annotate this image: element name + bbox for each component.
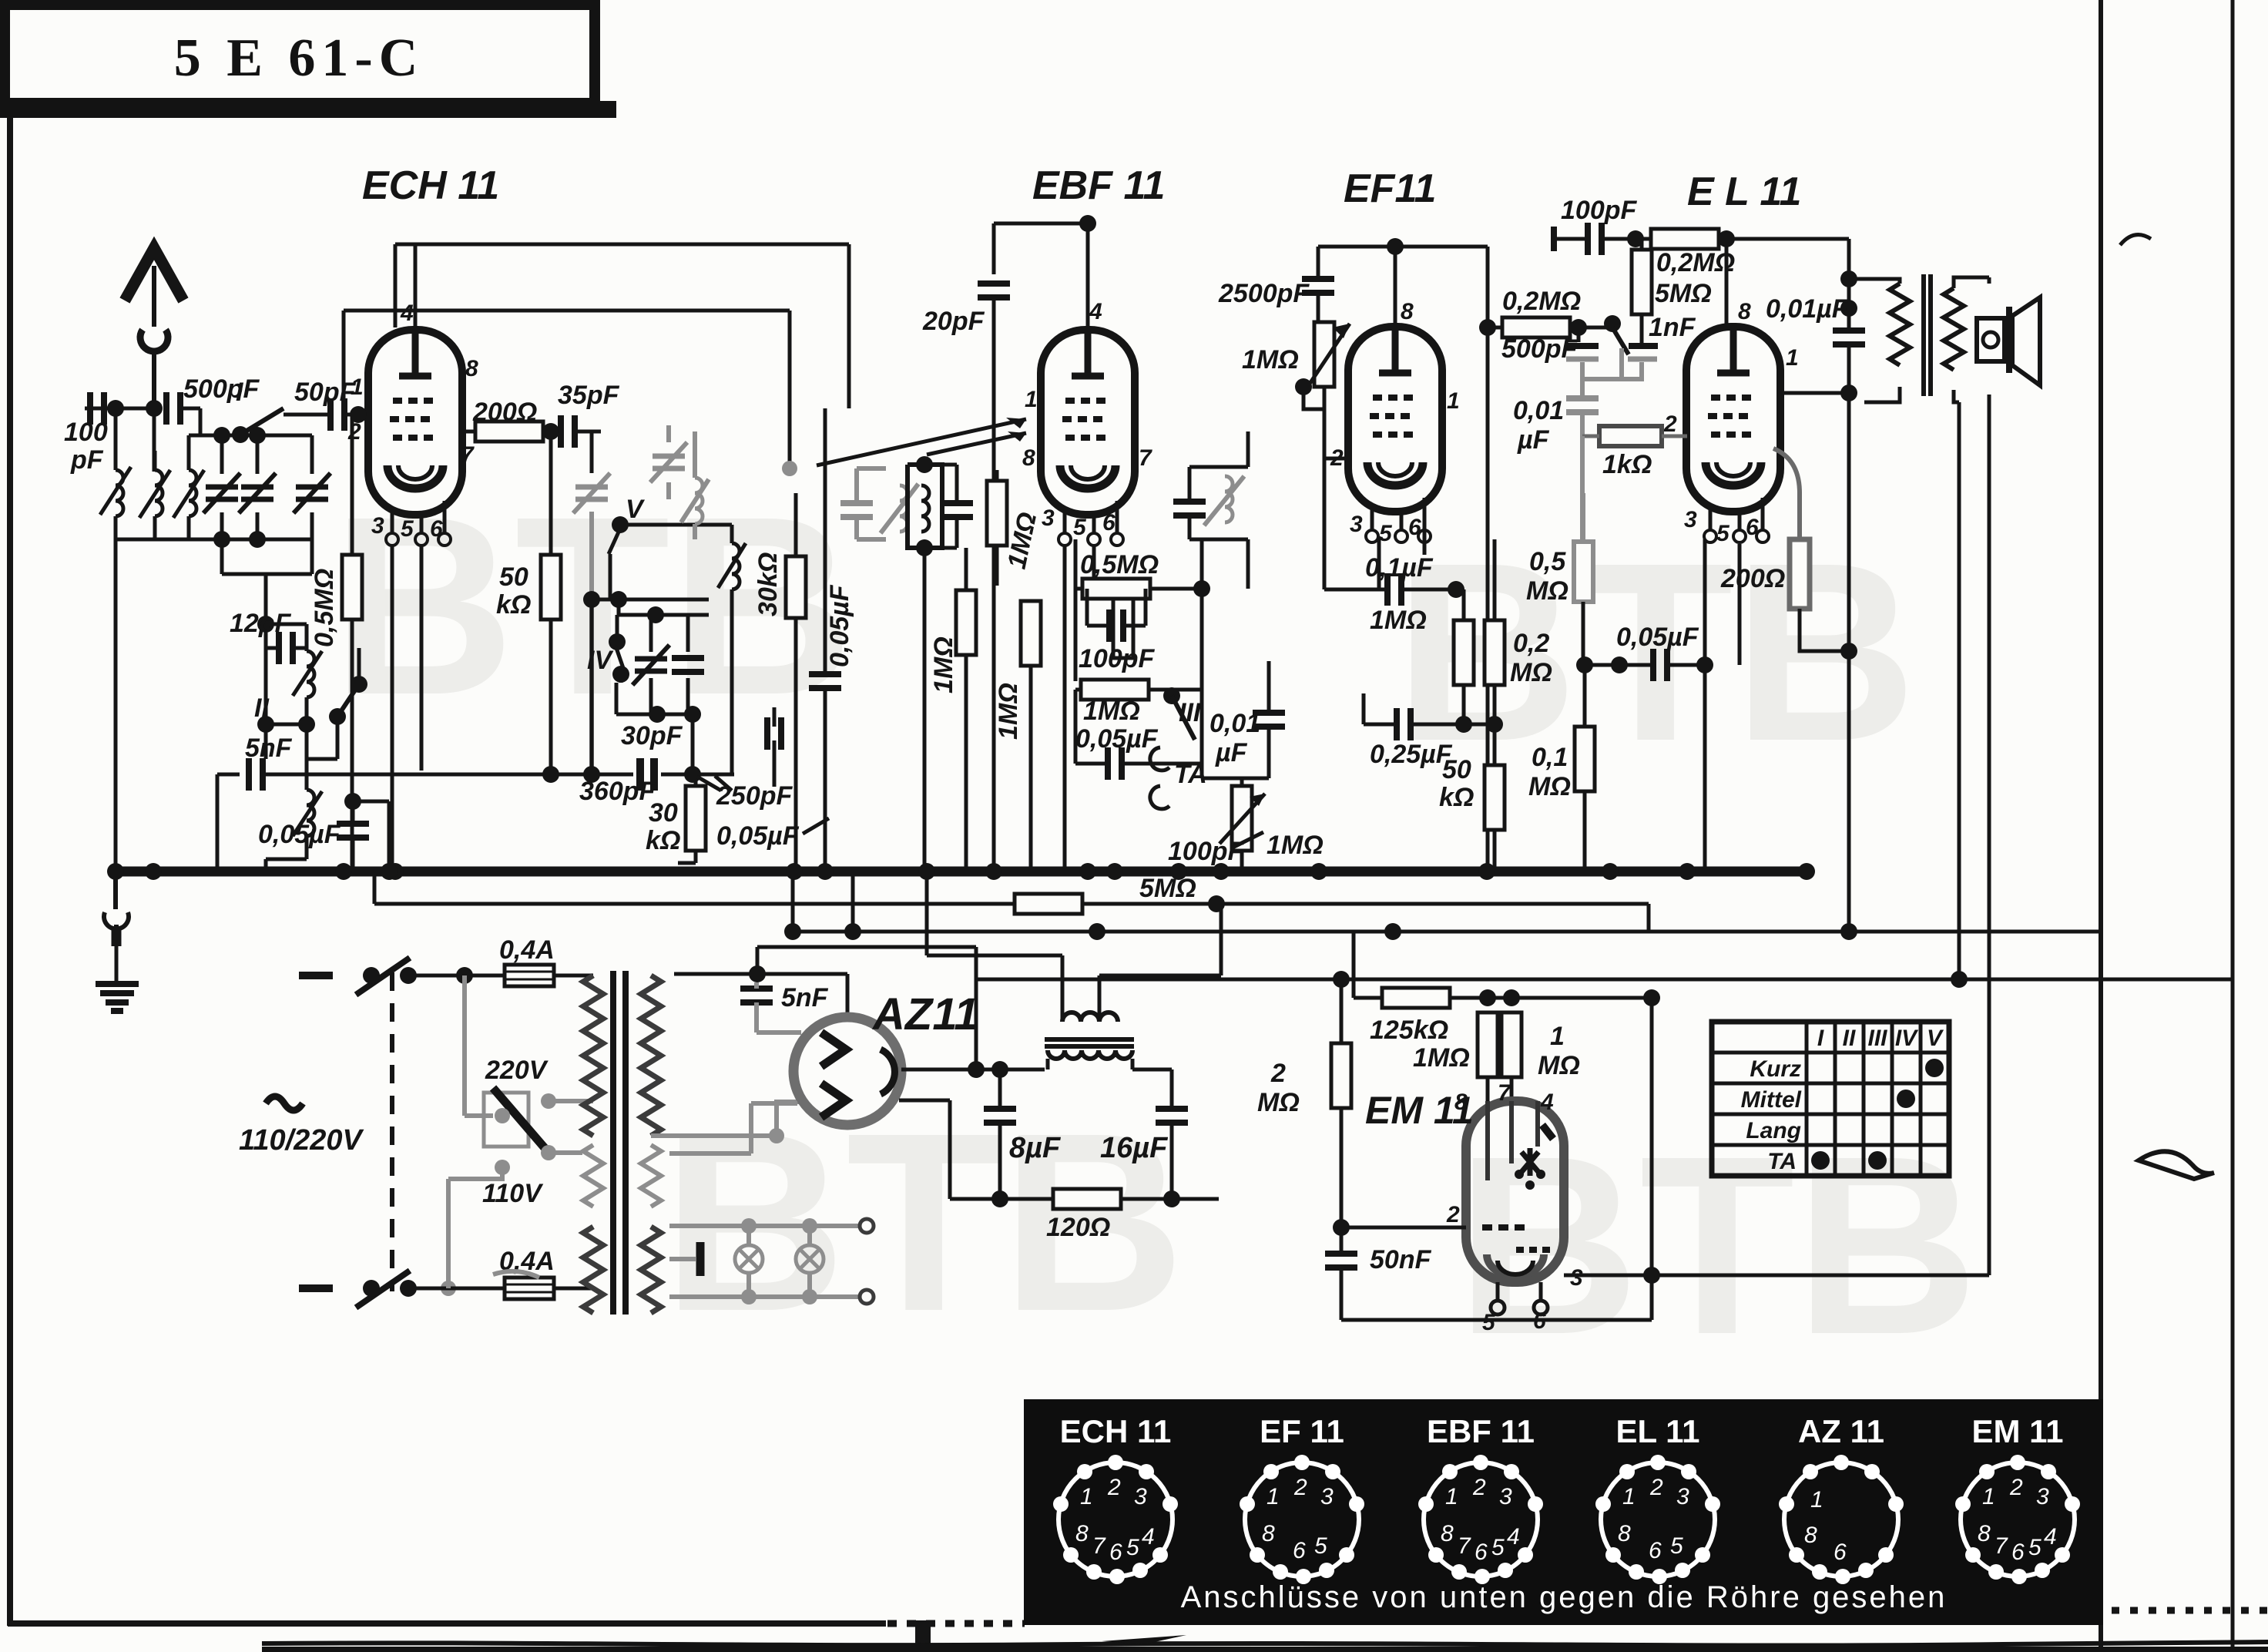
svg-text:0,4A: 0,4A: [499, 935, 555, 965]
svg-text:5 E 61-C: 5 E 61-C: [174, 29, 424, 88]
title box 5E61-C: [0, 5, 616, 118]
svg-text:µF: µF: [1517, 425, 1550, 455]
svg-text:0,01: 0,01: [1209, 709, 1260, 738]
svg-text:500pF: 500pF: [183, 374, 260, 404]
wire ECH grid2 line from 50pF: [344, 406, 368, 423]
svg-text:50pF: 50pF: [294, 378, 357, 407]
svg-text:ECH 11: ECH 11: [1060, 1413, 1172, 1449]
heater chassis bar: [669, 1242, 700, 1276]
svg-text:µF: µF: [1215, 738, 1248, 767]
switch V: [609, 495, 709, 599]
tube EL11: [1663, 299, 1799, 546]
svg-text:3: 3: [1042, 505, 1055, 531]
switch I: [232, 378, 283, 443]
svg-text:EF11: EF11: [1344, 166, 1436, 211]
capacitor 0.05uF d: [1075, 690, 1202, 780]
antenna coil L2: [139, 451, 170, 539]
IFT1 capacitor black: [941, 465, 973, 548]
capacitor 0.01uF gray: [1513, 396, 1599, 455]
resistor 0.2MOhm EL: [1651, 229, 1745, 277]
wire EL top feed: [1726, 239, 1849, 331]
svg-text:1: 1: [1025, 387, 1038, 412]
label 250pF: [697, 776, 793, 811]
svg-text:ECH 11: ECH 11: [362, 163, 499, 208]
band switch table: [1712, 1022, 1949, 1176]
wire osc left frame: [257, 574, 315, 871]
svg-text:6: 6: [1746, 515, 1759, 540]
svg-text:7: 7: [1498, 1080, 1511, 1106]
svg-text:0,05µF: 0,05µF: [825, 584, 854, 667]
wire ECH top rail2: [344, 311, 790, 468]
svg-text:MΩ: MΩ: [1510, 658, 1552, 687]
svg-text:0,01: 0,01: [1513, 396, 1564, 425]
svg-text:2: 2: [347, 419, 361, 445]
bottom border dotted segment: [887, 1620, 1025, 1627]
svg-text:8: 8: [1738, 299, 1751, 324]
svg-text:1: 1: [1447, 388, 1460, 414]
capacitor 100pF top: [1554, 196, 1654, 255]
svg-text:Anschlüsse von unten gegen die: Anschlüsse von unten gegen die Röhre ges…: [1181, 1580, 1948, 1614]
resistor 1MOhm vert b: [987, 470, 1042, 586]
resistor 1kOhm: [1582, 426, 1687, 542]
svg-text:1: 1: [1786, 345, 1799, 371]
resistor 0.5MOhm gray: [1526, 493, 1593, 665]
svg-text:0,05µF: 0,05µF: [716, 821, 800, 851]
wire EM pin2: [1333, 1219, 1466, 1236]
resistor 30kOhm vertical2: [646, 774, 706, 863]
svg-text:30kΩ: 30kΩ: [753, 552, 783, 616]
wire ECH top rail1: [395, 244, 849, 408]
tube socket panel: [1024, 1399, 2103, 1625]
svg-text:1MΩ: 1MΩ: [1413, 1043, 1470, 1073]
svg-text:kΩ: kΩ: [646, 826, 680, 855]
label 100pF leader: [1168, 832, 1263, 866]
svg-text:0,05µF: 0,05µF: [258, 820, 341, 849]
wire antenna node: [85, 400, 163, 871]
power transformer core: [613, 971, 626, 1315]
mains terminal bottom: [299, 1271, 503, 1308]
label AC: [239, 1096, 364, 1157]
svg-text:100pF: 100pF: [1079, 644, 1155, 673]
svg-text:pF: pF: [70, 445, 104, 475]
svg-text:5: 5: [1716, 521, 1730, 546]
svg-text:MΩ: MΩ: [1257, 1088, 1300, 1117]
switch II: [254, 648, 367, 759]
osc coupling coil gray: [681, 431, 709, 539]
socket EL11: [1595, 1413, 1720, 1584]
label 100pF: [64, 418, 108, 475]
svg-text:0,2: 0,2: [1513, 629, 1549, 658]
svg-text:0,1: 0,1: [1532, 743, 1568, 772]
svg-text:50: 50: [1442, 755, 1471, 784]
svg-text:200Ω: 200Ω: [1720, 564, 1785, 593]
svg-text:1MΩ: 1MΩ: [1370, 606, 1427, 635]
svg-text:50: 50: [499, 562, 528, 592]
oscillator coil: [709, 525, 746, 774]
osc trimmer gray: [573, 473, 610, 774]
resistor 0.5MOhm vert d: [1113, 593, 1133, 658]
svg-text:0,2MΩ: 0,2MΩ: [1502, 287, 1581, 316]
wire EM pin3: [1564, 1267, 1989, 1284]
svg-text:V: V: [626, 495, 646, 524]
svg-text:AZ11: AZ11: [871, 989, 979, 1039]
wire osc bottom rail: [263, 766, 734, 783]
mains terminal top: [299, 958, 503, 995]
wire long line D: [0, 0, 2, 2]
coil L4: [293, 624, 322, 724]
switch gang dashed link: [390, 972, 394, 1291]
svg-text:5nF: 5nF: [781, 983, 829, 1012]
svg-text:100pF: 100pF: [1168, 837, 1244, 866]
potentiometer 1MOhm TA: [1220, 778, 1324, 871]
svg-text:V: V: [1927, 1026, 1944, 1051]
svg-text:4: 4: [400, 301, 414, 326]
svg-text:kΩ: kΩ: [496, 590, 531, 619]
svg-text:II: II: [1843, 1026, 1856, 1051]
svg-text:EBF 11: EBF 11: [1427, 1413, 1535, 1449]
IFT1 coil black: [921, 485, 929, 532]
pilot lamps: [669, 1218, 874, 1304]
capacitor 500pF: [166, 392, 200, 435]
capacitor 0.05uF rotated: [809, 408, 854, 871]
ground lead: [104, 871, 129, 982]
trimmer C2: [239, 435, 276, 539]
svg-text:3: 3: [1570, 1265, 1583, 1291]
wire ECH grid1: [352, 415, 368, 435]
filter choke: [927, 871, 1221, 1069]
svg-text:0,01µF: 0,01µF: [1766, 294, 1849, 324]
capacitor 12pF: [230, 609, 307, 664]
wire EBF pin drops: [1065, 544, 1094, 871]
svg-text:3: 3: [371, 513, 384, 539]
switch IV: [587, 615, 629, 683]
power transformer primary: [583, 975, 603, 1313]
capacitor 0.01uF right: [1766, 294, 1865, 932]
tube EBF11: [1022, 299, 1152, 546]
wire cathode return: [381, 801, 398, 880]
right page border inner: [2099, 0, 2103, 1652]
svg-text:0,1µF: 0,1µF: [1365, 553, 1434, 583]
wire IFT2 frame: [1189, 431, 1248, 597]
bottom page border: [8, 1620, 886, 1627]
svg-text:0,05µF: 0,05µF: [1616, 623, 1699, 652]
wire ECH pin8: [0, 0, 2, 2]
svg-text:5nF: 5nF: [245, 734, 293, 763]
wire osc mid rails: [583, 591, 709, 623]
IFT1 frame: [908, 456, 942, 871]
svg-text:6: 6: [1102, 510, 1116, 536]
fuse 0.4A bottom: [493, 1247, 593, 1299]
svg-text:IV: IV: [587, 646, 614, 675]
svg-text:1MΩ: 1MΩ: [994, 683, 1023, 740]
coil L5: [293, 763, 322, 859]
wire AZ output: [901, 1061, 1045, 1078]
socket AZ11: [1779, 1413, 1904, 1584]
svg-text:III: III: [1179, 698, 1202, 727]
capacitor 50pF: [283, 378, 368, 431]
wire AZ anode lower: [651, 1102, 800, 1143]
svg-text:0,5MΩ: 0,5MΩ: [1080, 550, 1159, 579]
capacitor 35pF: [558, 381, 620, 448]
antenna coil L3: [173, 435, 204, 539]
resistor 1MOhm EM a: [1413, 1012, 1498, 1101]
wire OT drop a: [1958, 402, 1961, 979]
svg-text:100: 100: [64, 418, 108, 447]
svg-text:I: I: [236, 378, 244, 407]
svg-text:5: 5: [1482, 1310, 1496, 1335]
svg-text:MΩ: MΩ: [1526, 576, 1568, 606]
IFT1 capacitor gray: [782, 461, 886, 539]
svg-text:Mittel: Mittel: [1741, 1087, 1802, 1113]
switch 1nF: [1604, 313, 1696, 379]
svg-text:III: III: [1867, 1026, 1887, 1051]
capacitor 0.01uF b: [1202, 661, 1285, 778]
left page border: [7, 117, 13, 1626]
osc trimmer 30pF a: [632, 615, 669, 714]
main ground bus: [107, 863, 1815, 880]
capacitor 5nF AZ: [740, 982, 829, 1032]
svg-text:110/220V: 110/220V: [239, 1124, 364, 1157]
svg-text:0,05µF: 0,05µF: [1075, 724, 1159, 754]
wire EL pin8: [1725, 239, 1729, 327]
watermark BTB stamps: [331, 463, 1978, 1387]
wire AVC arrow 2: [927, 431, 1026, 455]
potentiometer 1MOhm: [1242, 322, 1350, 589]
resistor 0.5MOhm horiz: [1075, 539, 1202, 681]
svg-text:5: 5: [401, 516, 414, 542]
svg-text:1MΩ: 1MΩ: [1242, 345, 1299, 374]
capacitor 0.05uF EL: [1585, 623, 1713, 681]
svg-text:3: 3: [1684, 507, 1697, 532]
svg-text:12pF: 12pF: [230, 609, 292, 638]
svg-text:110V: 110V: [482, 1179, 544, 1208]
svg-text:5MΩ: 5MΩ: [1139, 874, 1196, 903]
svg-text:1MΩ: 1MΩ: [1267, 831, 1324, 860]
svg-text:AZ 11: AZ 11: [1798, 1413, 1884, 1449]
svg-text:1: 1: [1550, 1022, 1565, 1051]
svg-text:120Ω: 120Ω: [1046, 1213, 1110, 1242]
wire long line C: [976, 971, 2232, 988]
resistor 0.2MOhm EF anode: [1493, 287, 1607, 337]
wire EF right drop: [1479, 319, 1496, 871]
svg-text:2: 2: [1270, 1059, 1286, 1088]
bottom right dotted line: [2112, 1607, 2268, 1614]
svg-text:IV: IV: [1895, 1026, 1919, 1051]
svg-text:4: 4: [1540, 1090, 1554, 1115]
svg-text:1kΩ: 1kΩ: [1602, 450, 1652, 479]
wire HT line with 5MOhm: [374, 871, 1649, 932]
wire long line B: [793, 871, 2101, 940]
svg-text:kΩ: kΩ: [1439, 783, 1474, 812]
scan scribble right margin: [2139, 1151, 2214, 1179]
trimmer C1: [203, 435, 240, 539]
wire EL cathode drop: [1705, 539, 1740, 871]
wire EBF top: [994, 215, 1096, 330]
capacitor 20pF: [922, 284, 1010, 871]
resistor 120Ohm: [979, 1189, 1219, 1242]
svg-text:16µF: 16µF: [1100, 1132, 1169, 1164]
svg-text:200Ω: 200Ω: [472, 398, 537, 427]
capacitor 16uF: [1100, 1069, 1188, 1199]
svg-text:EM 11: EM 11: [1365, 1089, 1474, 1132]
svg-text:125kΩ: 125kΩ: [1370, 1016, 1448, 1045]
svg-text:EF 11: EF 11: [1260, 1413, 1344, 1449]
svg-text:Kurz: Kurz: [1750, 1056, 1801, 1082]
wire AZ filament loop: [669, 1100, 979, 1199]
resistor 200Ohm anode: [462, 398, 559, 442]
svg-text:0,25µF: 0,25µF: [1370, 740, 1453, 769]
fuse 0.4A top: [499, 935, 593, 986]
osc capacitor 30pF b: [672, 615, 704, 716]
capacitor 50nF: [1325, 1227, 1432, 1320]
ground symbol: [96, 984, 139, 1011]
capacitor 5nF: [217, 734, 293, 871]
wire EF pin drops: [1379, 524, 1424, 589]
svg-text:360pF: 360pF: [579, 777, 656, 806]
antenna coil L1: [100, 451, 131, 539]
svg-text:1nF: 1nF: [1649, 313, 1696, 342]
capacitor 0.05uF c: [716, 707, 829, 851]
socket EM11: [1955, 1413, 2080, 1584]
svg-text:MΩ: MΩ: [1538, 1051, 1580, 1080]
wire EM frame: [1341, 989, 1660, 1320]
voltage tap selector: [448, 975, 593, 1288]
svg-text:7: 7: [461, 442, 475, 468]
rectifier AZ11: [793, 1017, 901, 1125]
resistor 0.5MOhm vertical: [310, 435, 362, 871]
bottom border tick mark: [915, 1620, 931, 1652]
power transformer secondary: [641, 975, 661, 1313]
svg-text:TA: TA: [1767, 1149, 1797, 1174]
svg-text:5: 5: [1073, 515, 1087, 540]
svg-text:EM 11: EM 11: [1971, 1413, 2063, 1449]
capacitor 360pF: [579, 758, 656, 806]
right page border outer: [2231, 0, 2235, 1652]
capacitor 100pF: [90, 392, 104, 425]
svg-text:20pF: 20pF: [922, 307, 985, 336]
capacitor 8uF: [984, 1069, 1062, 1199]
svg-text:2: 2: [1446, 1202, 1460, 1227]
svg-text:2: 2: [1663, 411, 1677, 437]
resistor 0.2MOhm EF: [1485, 539, 1552, 724]
output transformer: [1840, 270, 1989, 402]
svg-text:2500pF: 2500pF: [1218, 279, 1310, 308]
antenna symbol: [125, 248, 183, 408]
svg-text:1MΩ: 1MΩ: [1083, 697, 1140, 726]
svg-text:0,2MΩ: 0,2MΩ: [1656, 248, 1735, 277]
svg-text:0,5: 0,5: [1529, 547, 1566, 576]
resistor 1MOhm vert c: [994, 601, 1041, 871]
switch III TA: [1150, 687, 1207, 809]
wire ECH pin drops: [392, 544, 421, 871]
IFT1 coil gray: [881, 484, 918, 533]
tube EM11: [1446, 1080, 1583, 1335]
capacitor 2500pF: [1218, 247, 1334, 321]
bottom scan edge: [262, 1635, 2268, 1652]
osc coupling trimmer gray: [650, 425, 687, 499]
svg-text:5: 5: [1379, 521, 1393, 546]
resistor 200Ohm EL: [1720, 448, 1857, 660]
svg-text:6: 6: [1408, 515, 1421, 540]
svg-text:1: 1: [351, 374, 364, 400]
tuning cap C3: [294, 435, 330, 539]
tube ECH11: [347, 301, 478, 546]
svg-text:6: 6: [430, 516, 443, 542]
capacitor 500pF: [1501, 319, 1599, 364]
resistor 1MOhm EM b: [1501, 1012, 1580, 1101]
svg-text:II: II: [254, 693, 270, 723]
wire OT drop b speaker return: [1988, 277, 1991, 1275]
svg-text:E L 11: E L 11: [1687, 170, 1801, 214]
svg-text:100pF: 100pF: [1561, 196, 1637, 225]
svg-text:3: 3: [1350, 512, 1363, 537]
wire gray coupling: [1582, 348, 1622, 398]
resistor 5MOhm vert: [1632, 239, 1712, 343]
capacitor 0.1uF: [1324, 553, 1456, 606]
svg-text:4: 4: [1089, 299, 1102, 324]
resistor 50kOhm: [496, 555, 561, 774]
resistor 1MOhm vert a: [929, 548, 976, 871]
svg-text:0,5MΩ: 0,5MΩ: [310, 569, 339, 647]
svg-text:5MΩ: 5MΩ: [1655, 279, 1712, 308]
speaker: [1977, 297, 2040, 385]
svg-text:8µF: 8µF: [1009, 1132, 1062, 1164]
wire band rails: [114, 427, 312, 574]
svg-text:EBF 11: EBF 11: [1032, 163, 1165, 208]
svg-text:30pF: 30pF: [621, 721, 683, 750]
svg-text:50nF: 50nF: [1370, 1245, 1432, 1274]
svg-text:8: 8: [1401, 299, 1414, 324]
IFT2 capacitor: [1173, 467, 1206, 539]
wire EL anode: [1781, 384, 1857, 401]
svg-text:8: 8: [465, 356, 478, 381]
svg-text:EL 11: EL 11: [1616, 1413, 1700, 1449]
svg-text:30: 30: [649, 798, 678, 828]
svg-text:I: I: [1817, 1026, 1824, 1051]
resistor 0.1MOhm: [1528, 656, 1595, 871]
resistor 5MOhm: [1015, 894, 1082, 914]
resistor 1MOhm horiz: [1075, 589, 1202, 726]
scan scribble top right: [2120, 235, 2151, 245]
capacitor 100pF parallel: [1079, 589, 1155, 673]
svg-text:220V: 220V: [485, 1056, 549, 1085]
svg-text:MΩ: MΩ: [1528, 772, 1571, 801]
svg-text:8: 8: [1022, 445, 1035, 471]
capacitor 0.25uF: [1364, 693, 1503, 769]
svg-text:7: 7: [1139, 445, 1152, 471]
wire EF pin2: [1324, 457, 1350, 461]
socket ECH11: [1053, 1413, 1178, 1584]
socket EBF11: [1418, 1413, 1543, 1584]
capacitor 0.05uF cathode: [258, 793, 389, 871]
svg-text:1MΩ: 1MΩ: [929, 636, 958, 693]
svg-text:Lang: Lang: [1746, 1118, 1801, 1143]
wire osc node A: [542, 423, 592, 558]
svg-text:35pF: 35pF: [558, 381, 620, 410]
wire AVC arrow 1: [817, 418, 1026, 465]
resistor 125kOhm: [1354, 932, 1652, 1045]
resistor 2MOhm: [1257, 979, 1351, 1227]
wire HT top: [674, 871, 985, 1078]
resistor 1MOhm EF: [1370, 581, 1474, 724]
tube EF11: [1330, 299, 1460, 546]
resistor 30kOhm gray vertical: [753, 493, 806, 871]
wire EF top rail: [1318, 238, 1488, 327]
IFT2 coil gray: [1204, 476, 1244, 525]
wire osc switch frame: [616, 683, 701, 774]
socket EF11: [1240, 1413, 1364, 1584]
resistor 50kOhm EF: [1439, 724, 1505, 871]
